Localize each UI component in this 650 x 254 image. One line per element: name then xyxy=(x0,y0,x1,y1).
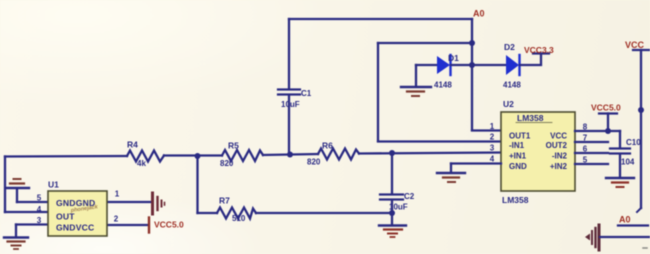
svg-text:6: 6 xyxy=(583,145,588,154)
svg-text:10uF: 10uF xyxy=(389,203,408,212)
svg-text:1: 1 xyxy=(490,122,495,131)
wire C1 lower drop xyxy=(288,96,290,155)
junction node A0 feedback xyxy=(469,40,475,46)
wire feedback horizontal xyxy=(378,42,472,44)
svg-text:2: 2 xyxy=(114,215,119,224)
component U1 body xyxy=(48,191,107,236)
wire A0 bottom stub xyxy=(618,224,648,226)
wire U2 pin7 stub xyxy=(575,141,608,143)
svg-text:4k: 4k xyxy=(137,159,146,168)
svg-text:1: 1 xyxy=(115,190,120,199)
svg-text:-IN2: -IN2 xyxy=(552,152,568,161)
wire D2 cathode to VCC3.3 xyxy=(520,54,541,65)
svg-text:104: 104 xyxy=(621,158,635,167)
wire U2 pin2 stub -IN1 xyxy=(378,140,501,142)
wire U1 pin4 stub xyxy=(5,211,48,213)
svg-text:VCC: VCC xyxy=(550,132,567,141)
wire U1 pin5 stub xyxy=(17,201,48,203)
power port VCC5.0 bar at U1 xyxy=(148,218,150,233)
wire R4 to junction xyxy=(164,154,222,156)
svg-text:C10: C10 xyxy=(626,138,641,147)
wire VCC right vertical xyxy=(640,50,642,208)
svg-text:-IN1: -IN1 xyxy=(509,141,525,150)
wire U2 pin6 stub xyxy=(575,152,608,154)
wire C2 upper drop xyxy=(391,153,393,193)
ground upper-left (inverted) xyxy=(6,179,29,188)
svg-text:5: 5 xyxy=(583,156,588,165)
svg-text:A0: A0 xyxy=(473,9,485,19)
wire D1 cathode to D2 anode xyxy=(451,64,506,66)
wire A0 right vertical drop to U2 pin1 xyxy=(471,19,473,130)
svg-text:10uF: 10uF xyxy=(281,100,300,109)
svg-text:4148: 4148 xyxy=(503,81,521,90)
junction node diode row xyxy=(469,62,475,68)
svg-text:LM358: LM358 xyxy=(517,113,544,123)
junction node VCC5.0 pin8 xyxy=(605,128,611,134)
svg-text:GNDVCC: GNDVCC xyxy=(56,223,94,233)
power port VCC right bar xyxy=(633,49,649,51)
wire U1 pin2 stub xyxy=(107,224,148,226)
resistor R7 xyxy=(217,208,256,219)
diode D2 xyxy=(506,55,520,75)
svg-text:820: 820 xyxy=(307,158,321,167)
svg-text:C2: C2 xyxy=(404,192,415,201)
wire U1 pin3 stub xyxy=(16,223,48,225)
svg-text:U1: U1 xyxy=(48,180,59,190)
ground C2 xyxy=(379,226,406,238)
svg-text:A0: A0 xyxy=(619,215,631,225)
junction node C2 bottom xyxy=(389,210,395,216)
svg-text:VCC: VCC xyxy=(625,40,645,50)
svg-text:R5: R5 xyxy=(228,141,239,151)
wire bottom-right jack stub xyxy=(600,236,649,238)
wire C10 upper drop xyxy=(619,131,621,148)
svg-text:4: 4 xyxy=(490,155,495,164)
power port VCC5.0 stem at U2 xyxy=(607,114,609,132)
svg-text:510: 510 xyxy=(232,214,246,223)
svg-text:R4: R4 xyxy=(127,140,138,150)
connector phonejack P1 xyxy=(153,193,165,214)
ground D1 stem xyxy=(415,65,417,86)
ground U2 pin4 stem xyxy=(450,164,452,173)
connector phonejack P2 xyxy=(585,225,599,250)
svg-text:VCC5.0: VCC5.0 xyxy=(154,220,184,230)
op-amp U2 body xyxy=(501,112,575,191)
ground U2 pin4 xyxy=(437,173,465,182)
wire U2 pin4 stub GND xyxy=(451,162,501,164)
wire R5 to C1 junction xyxy=(263,154,318,155)
svg-text:4: 4 xyxy=(37,205,42,214)
wire U1 pin1 stub xyxy=(107,201,151,203)
svg-text:3: 3 xyxy=(490,144,495,153)
wire top A0 horizontal xyxy=(289,18,472,20)
wire U2 pin8 stub VCC xyxy=(575,130,620,132)
ground D1 xyxy=(401,87,431,96)
svg-text:7: 7 xyxy=(583,134,588,143)
svg-text:LM358: LM358 xyxy=(502,195,529,205)
svg-text:R7: R7 xyxy=(219,196,230,206)
svg-text:5: 5 xyxy=(37,194,42,203)
ground lower-left xyxy=(4,238,28,250)
svg-text:U2: U2 xyxy=(503,99,514,109)
svg-text:8: 8 xyxy=(583,123,588,132)
wire U2 pin1 stub OUT1 xyxy=(472,129,501,131)
svg-text:GND: GND xyxy=(509,162,527,171)
svg-text:D2: D2 xyxy=(504,42,515,52)
wire C2 lower drop xyxy=(391,200,393,213)
svg-text:OUT2: OUT2 xyxy=(546,141,568,150)
wire C10 lower drop xyxy=(619,154,621,177)
ground upper-left stem xyxy=(16,189,18,202)
wire R6 to U2 pin3 xyxy=(359,153,501,154)
svg-text:R6: R6 xyxy=(322,141,333,151)
svg-text:D1: D1 xyxy=(448,53,459,63)
power port VCC3.3 bar xyxy=(533,52,549,54)
junction node C2 top xyxy=(389,150,395,156)
svg-text:OUT1: OUT1 xyxy=(509,132,531,141)
ground lower-left stem xyxy=(15,225,17,237)
wire U2 pin5 stub xyxy=(575,163,608,165)
ground C2 stem xyxy=(391,213,393,225)
diode D1 xyxy=(437,55,451,75)
wire into R7 xyxy=(198,212,218,214)
junction node R4/R5/R7 xyxy=(195,153,201,159)
wire ground to D1 anode xyxy=(416,64,437,66)
svg-text:+IN1: +IN1 xyxy=(509,152,527,161)
svg-text:VCC5.0: VCC5.0 xyxy=(591,103,621,113)
svg-text:VCC3.3: VCC3.3 xyxy=(524,45,554,55)
junction node VCC right xyxy=(638,107,644,113)
resistor R5 xyxy=(222,150,263,161)
wire C1 upper drop xyxy=(288,19,290,88)
wire left vertical drop to U1 xyxy=(4,157,6,213)
wire J1 drop to R7 xyxy=(196,156,198,213)
svg-text:+IN2: +IN2 xyxy=(550,162,568,171)
svg-text:4148: 4148 xyxy=(434,81,452,90)
wire feedback vertical drop xyxy=(377,43,379,141)
svg-text:C1: C1 xyxy=(301,89,312,98)
resistor R4 xyxy=(127,151,164,162)
wire main signal run xyxy=(5,155,127,158)
svg-text:820: 820 xyxy=(220,159,234,168)
capacitor C10 xyxy=(610,149,630,154)
power port VCC5.0 bar at U2 xyxy=(599,112,617,114)
svg-text:3: 3 xyxy=(37,216,42,225)
junction node C1 bottom xyxy=(287,152,293,158)
ground C10 xyxy=(606,178,634,187)
wire R7 to C2 junction xyxy=(256,212,392,214)
stray mark bottom-right xyxy=(643,247,647,249)
capacitor C1 xyxy=(278,90,300,95)
svg-text:2: 2 xyxy=(490,133,495,142)
wire VCC end tick xyxy=(637,208,641,212)
capacitor C2 xyxy=(380,195,403,200)
resistor R6 xyxy=(318,149,359,160)
